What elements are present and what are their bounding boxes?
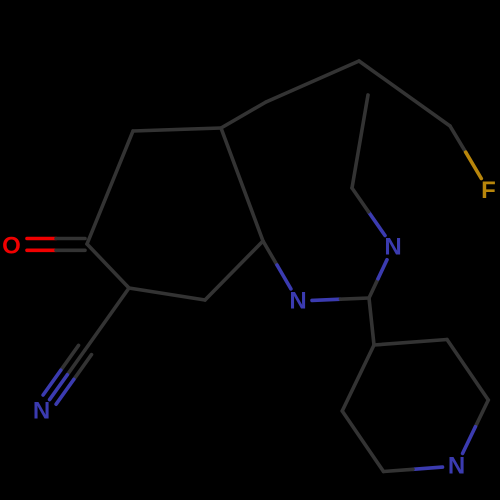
- svg-text:F: F: [481, 177, 496, 204]
- svg-text:N: N: [289, 288, 306, 315]
- svg-text:O: O: [2, 233, 21, 260]
- svg-text:N: N: [33, 398, 50, 425]
- svg-text:N: N: [384, 234, 401, 261]
- svg-text:N: N: [448, 453, 465, 480]
